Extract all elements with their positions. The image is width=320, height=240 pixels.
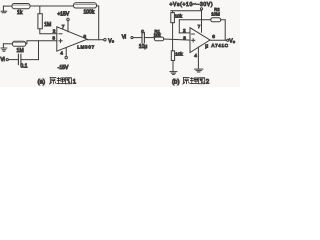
pin 4 terminal circle <box>65 56 67 58</box>
wire rail to output drop <box>97 6 99 40</box>
svg-text:10k: 10k <box>175 13 183 18</box>
svg-text:(a): (a) <box>38 78 46 85</box>
minus sign (U2) <box>192 33 195 35</box>
svg-text:1M: 1M <box>17 48 24 54</box>
wire ground G2 to resistor 1M horizontal <box>3 43 12 45</box>
svg-text:2: 2 <box>206 78 210 85</box>
input Vi terminal (circuit 1) <box>0 57 8 63</box>
wire R1 to op-amp input node <box>164 39 190 40</box>
wire R2 right lead to output <box>221 20 226 41</box>
wire capacitor to node <box>21 59 39 61</box>
wire ground G1 to resistor 1k <box>3 5 12 7</box>
caption hanzi YUAN (b) <box>183 78 190 85</box>
capacitor C 10u <box>142 32 144 43</box>
label Vo (circuit 1) <box>108 38 114 44</box>
svg-text:1M: 1M <box>44 22 51 28</box>
plus sign (U2) <box>192 39 195 42</box>
op-amp U2 triangle <box>190 28 210 53</box>
caption hanzi LI (b) <box>190 78 198 84</box>
svg-text:10μ: 10μ <box>139 44 148 50</box>
supply terminal circle <box>200 8 202 10</box>
ground G2 (mid-left) <box>1 44 7 51</box>
svg-text:-15V: -15V <box>58 65 69 71</box>
output wire pin 6 (circuit 2) <box>210 39 227 41</box>
svg-text:μ: μ <box>205 43 208 49</box>
svg-text:2: 2 <box>53 29 56 35</box>
label Vo (circuit 2) <box>229 39 235 45</box>
resistor R1 10k <box>154 37 163 41</box>
svg-text:LM307: LM307 <box>77 44 94 49</box>
svg-text:+15V: +15V <box>57 11 69 17</box>
minus sign (pin 2) <box>59 33 62 35</box>
plus sign (pin 3) <box>59 39 62 42</box>
svg-text:o: o <box>233 40 235 44</box>
svg-text:7: 7 <box>62 24 65 30</box>
svg-text:+Vs(+10~−30V): +Vs(+10~−30V) <box>170 2 213 8</box>
svg-text:10M: 10M <box>211 12 220 17</box>
svg-text:A741C: A741C <box>211 43 228 48</box>
caption hanzi TU (b) <box>199 78 205 84</box>
output terminal circle (circuit 2) <box>227 39 229 41</box>
resistor 1M vertical <box>38 14 42 29</box>
svg-text:o: o <box>112 40 114 44</box>
pin 2 wire (circuit 2) <box>179 32 190 34</box>
resistor R2 10M <box>211 18 221 22</box>
svg-text:3: 3 <box>52 36 55 42</box>
ground G4 (pin 4) <box>195 69 203 72</box>
op-amp U1 triangle <box>57 27 87 51</box>
label uA741C <box>205 43 228 49</box>
svg-text:7: 7 <box>198 24 201 30</box>
ground G1 (top-left) <box>1 6 7 13</box>
svg-text:10k: 10k <box>175 52 183 57</box>
svg-text:100k: 100k <box>84 10 95 16</box>
resistor 1k <box>12 4 30 9</box>
caption hanzi YUAN <box>50 78 57 85</box>
output wire pin 6 <box>87 39 104 41</box>
svg-text:6: 6 <box>212 34 215 40</box>
pin 7 wire <box>67 21 69 32</box>
svg-text:1k: 1k <box>17 10 23 16</box>
svg-text:2: 2 <box>183 28 186 33</box>
svg-text:6: 6 <box>83 34 86 40</box>
caption hanzi TU <box>65 78 71 84</box>
wire top rail <box>30 5 74 7</box>
ground G3 (below 10k) <box>170 61 177 75</box>
svg-text:3: 3 <box>183 36 186 41</box>
pin 4 wire <box>65 48 67 57</box>
input Vi terminal (circuit 2) <box>122 34 133 40</box>
wire junction to resistor 1M vertical <box>39 6 41 14</box>
svg-text:Vi: Vi <box>122 34 126 40</box>
svg-text:4: 4 <box>194 53 197 59</box>
wire Vi to capacitor C <box>133 37 142 39</box>
pin 7 terminal circle <box>67 18 69 20</box>
svg-text:1: 1 <box>73 78 77 85</box>
supply rail wire <box>171 10 202 12</box>
svg-text:(b): (b) <box>172 78 180 85</box>
svg-text:4: 4 <box>60 51 63 57</box>
wire 1M to pin 3 <box>26 41 57 44</box>
pin 4 wire (circuit 2) <box>197 47 199 69</box>
caption hanzi LI <box>57 78 65 84</box>
wire R2 left lead to pin 2 <box>179 20 211 33</box>
resistor 100k <box>74 3 97 8</box>
capacitor 0.1 <box>18 54 21 64</box>
svg-text:0.1: 0.1 <box>21 63 28 69</box>
pin 7 wire (circuit 2) <box>201 10 203 32</box>
wire node down to capacitor row <box>38 41 40 60</box>
wire Vi to capacitor 0.1 <box>8 59 18 61</box>
output terminal circle (circuit 1) <box>104 39 106 41</box>
resistor 10k to ground <box>171 51 174 61</box>
resistor 10k bias vertical <box>171 11 175 51</box>
svg-text:Vi: Vi <box>0 57 4 63</box>
wire capacitor to R1 <box>144 37 154 39</box>
resistor 1M horizontal <box>12 41 25 46</box>
wire 1M to pin 2 <box>40 29 57 34</box>
